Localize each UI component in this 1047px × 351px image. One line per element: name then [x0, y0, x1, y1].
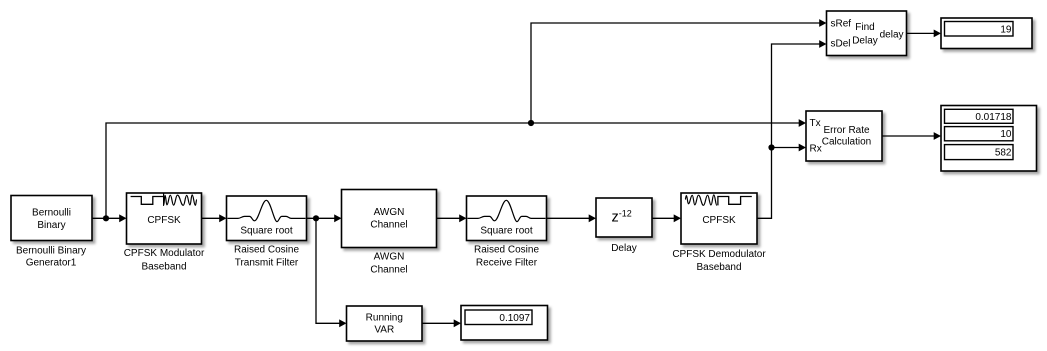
svg-text:Calculation: Calculation	[822, 136, 871, 147]
svg-text:Baseband: Baseband	[141, 261, 186, 272]
block: CPFSK Demodulator Baseband	[681, 193, 757, 244]
wire: Transmit Filter output to AWGN Channel	[307, 217, 336, 219]
svg-text:Channel: Channel	[370, 220, 407, 231]
block: Raised Cosine Receive Filter	[467, 196, 547, 241]
arrowhead into Display (19)	[934, 30, 941, 38]
arrowhead into Running VAR	[339, 319, 346, 327]
icon: raised cosine impulse (transmit)	[228, 200, 306, 221]
block: Error Rate Calculation	[806, 111, 882, 161]
label: AWGN Channel	[370, 252, 407, 276]
svg-text:VAR: VAR	[374, 325, 394, 336]
label: Raised Cosine Transmit Filter	[234, 245, 299, 269]
wire: CPFSK Modulator output to Raised Cosine Transmit Filter	[202, 217, 221, 219]
arrowhead into Delay	[589, 214, 596, 222]
junction node after Bernoulli output	[103, 215, 109, 221]
icon: square wave (demodulator)	[718, 197, 752, 206]
wire: AWGN Channel output to Raised Cosine Receive Filter	[437, 217, 461, 219]
svg-text:CPFSK Modulator: CPFSK Modulator	[124, 248, 205, 259]
svg-text:0.1097: 0.1097	[499, 313, 530, 324]
svg-text:Square root: Square root	[240, 226, 292, 237]
svg-text:CPFSK: CPFSK	[702, 215, 736, 226]
svg-text:Baseband: Baseband	[696, 262, 741, 273]
svg-text:0.01718: 0.01718	[975, 112, 1012, 123]
wire: Error Rate output to Display (error stats)	[882, 135, 935, 137]
block: Delay (z^-12)	[596, 198, 652, 237]
wire: branch from Bernoulli junction up and right to Error Rate Tx	[106, 123, 800, 218]
label: CPFSK Modulator Baseband	[124, 248, 205, 272]
svg-text:Generator1: Generator1	[26, 258, 77, 269]
arrowhead into Display (error stats)	[934, 132, 941, 140]
icon: FM sine wave (modulator)	[164, 193, 197, 205]
block: CPFSK Modulator Baseband	[127, 193, 202, 244]
label: Raised Cosine Receive Filter	[474, 245, 539, 269]
arrowhead into Error Rate Rx port	[799, 144, 806, 152]
svg-text:Bernoulli: Bernoulli	[32, 208, 71, 219]
junction node after Transmit Filter output	[313, 215, 319, 221]
svg-text:AWGN: AWGN	[374, 252, 405, 263]
arrowhead into Find Delay sDel port	[819, 40, 826, 48]
wire: branch down from (316,218) to Running VAR	[316, 218, 341, 323]
block: Display (Running VAR result 0.1097)	[461, 306, 548, 341]
svg-text:Raised Cosine: Raised Cosine	[474, 245, 539, 256]
icon: square wave (modulator)	[131, 197, 164, 205]
block: AWGN Channel	[342, 190, 437, 248]
svg-text:Raised Cosine: Raised Cosine	[234, 245, 299, 256]
block: Find Delay	[827, 11, 907, 56]
block: Running VAR	[347, 306, 423, 341]
svg-text:CPFSK Demodulator: CPFSK Demodulator	[672, 249, 766, 260]
svg-text:Running: Running	[366, 313, 403, 324]
svg-text:Receive Filter: Receive Filter	[476, 257, 538, 268]
svg-text:Binary: Binary	[37, 220, 65, 231]
svg-text:Delay: Delay	[852, 35, 878, 46]
svg-text:Channel: Channel	[370, 264, 407, 275]
svg-text:Find: Find	[855, 22, 874, 33]
svg-text:Delay: Delay	[611, 243, 637, 254]
wire: CPFSK Demodulator output up to Find Delay sDel	[757, 44, 821, 218]
svg-text:sDel: sDel	[831, 39, 851, 50]
arrowhead into Receive Filter	[459, 214, 466, 222]
svg-text:19: 19	[1000, 24, 1012, 35]
block: Bernoulli Binary Generator1	[11, 196, 92, 241]
wire: Receive Filter output to Delay	[547, 217, 591, 219]
wire: Bernoulli output to CPFSK Modulator input	[92, 217, 120, 219]
arrowhead into Find Delay sRef port	[819, 19, 826, 27]
label: Bernoulli Binary Generator1	[16, 245, 86, 268]
svg-text:sRef: sRef	[831, 19, 852, 30]
arrowhead into Display (0.1097)	[454, 319, 461, 327]
wire: junction to Error Rate Rx	[772, 147, 801, 149]
wire: Delay output to CPFSK Demodulator	[652, 217, 675, 219]
svg-text:Error Rate: Error Rate	[823, 125, 870, 136]
block: Raised Cosine Transmit Filter	[227, 196, 307, 241]
svg-text:Tx: Tx	[810, 118, 821, 129]
junction node on Tx wire (branch to sRef)	[528, 120, 534, 126]
arrowhead into AWGN Channel	[334, 214, 341, 222]
arrowhead into CPFSK Demodulator	[674, 214, 681, 222]
arrowhead into Transmit Filter	[219, 214, 226, 222]
svg-text:delay: delay	[880, 30, 904, 41]
arrowhead into Error Rate Tx port	[799, 119, 806, 127]
svg-text:Rx: Rx	[810, 144, 822, 155]
svg-text:10: 10	[1000, 129, 1012, 140]
label: CPFSK Demodulator Baseband	[672, 249, 766, 273]
svg-text:Bernoulli Binary: Bernoulli Binary	[16, 245, 86, 256]
svg-text:Transmit Filter: Transmit Filter	[235, 257, 299, 268]
svg-text:Square root: Square root	[480, 226, 532, 237]
svg-text:582: 582	[995, 148, 1012, 159]
wire: branch up from (531,123) to Find Delay sRef	[531, 23, 821, 123]
icon: FM sine wave (demodulator)	[685, 195, 717, 206]
svg-text:AWGN: AWGN	[374, 207, 405, 218]
block: Display (Find Delay result 19)	[941, 18, 1032, 49]
wire: Running VAR output to Display (0.1097)	[422, 322, 455, 324]
block: Display (Error Rate results)	[941, 106, 1037, 172]
svg-text:CPFSK: CPFSK	[147, 215, 181, 226]
icon: raised cosine impulse (receive)	[468, 200, 546, 221]
junction node on demod riser (branch to Rx)	[768, 144, 774, 150]
wire: Find Delay output to Display (19)	[907, 32, 936, 34]
arrowhead into CPFSK Modulator	[119, 214, 126, 222]
